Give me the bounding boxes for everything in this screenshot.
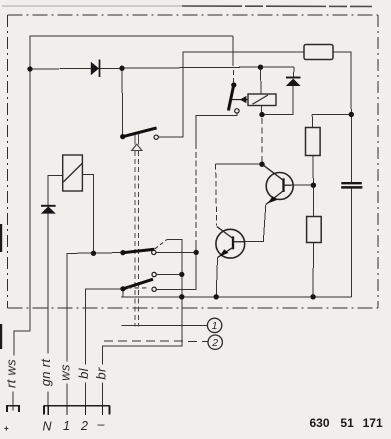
svg-text:1: 1 [63,419,70,433]
svg-text:N: N [42,420,52,434]
svg-text:–: – [97,418,106,432]
svg-text:rt ws: rt ws [4,359,19,388]
svg-text:630: 630 [310,416,330,430]
svg-text:171: 171 [363,416,383,430]
svg-text:+: + [4,424,9,433]
svg-text:1: 1 [212,320,218,332]
svg-text:br: br [94,367,109,380]
svg-text:2: 2 [211,337,218,349]
svg-text:ws: ws [58,364,73,381]
svg-text:gn rt: gn rt [38,358,53,387]
svg-text:51: 51 [340,416,354,430]
svg-text:bl: bl [76,367,91,379]
svg-text:2: 2 [80,419,88,433]
